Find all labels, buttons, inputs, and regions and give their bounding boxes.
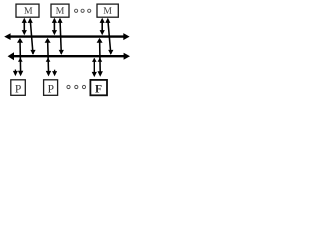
bus B1 (upper horizontal bus with end arrows)	[4, 33, 129, 40]
wire M3 double-arrow to bus B1	[100, 18, 105, 36]
ellipsis dots between P2 and F (bottom row)	[67, 85, 86, 88]
bus B2 (lower horizontal bus with end arrows)	[8, 52, 130, 60]
wire M3 double-arrow to bus B2 (crosses B1)	[105, 18, 113, 55]
wire M1 double-arrow to bus B2 (crosses B1)	[28, 18, 36, 55]
wire P1 riser to bus B1 with arrowheads at B1, B2 and box	[17, 38, 23, 76]
faulty processor box F	[90, 80, 107, 95]
wire P2 riser to bus B1 with arrowheads at B1, B2 and box	[45, 38, 52, 77]
ellipsis dots between M2 and M3 (top row)	[75, 9, 91, 12]
processor box P1	[11, 80, 25, 96]
processor box P2	[44, 80, 58, 96]
wire M2 double-arrow to bus B1	[52, 18, 57, 36]
wire F left line bus B2 to box	[92, 58, 97, 77]
wire M1 double-arrow to bus B1	[22, 18, 27, 36]
wire F riser to bus B1 with arrowheads at B1, B2 and box	[97, 38, 103, 77]
wire M2 double-arrow to bus B2 (crosses B1)	[57, 18, 64, 55]
wire P1 stub arrow into box	[13, 70, 18, 77]
wire P2 stub arrow into box	[52, 70, 57, 77]
memory box M3	[97, 4, 118, 17]
memory box M2	[51, 4, 69, 17]
memory box M1	[16, 4, 39, 17]
